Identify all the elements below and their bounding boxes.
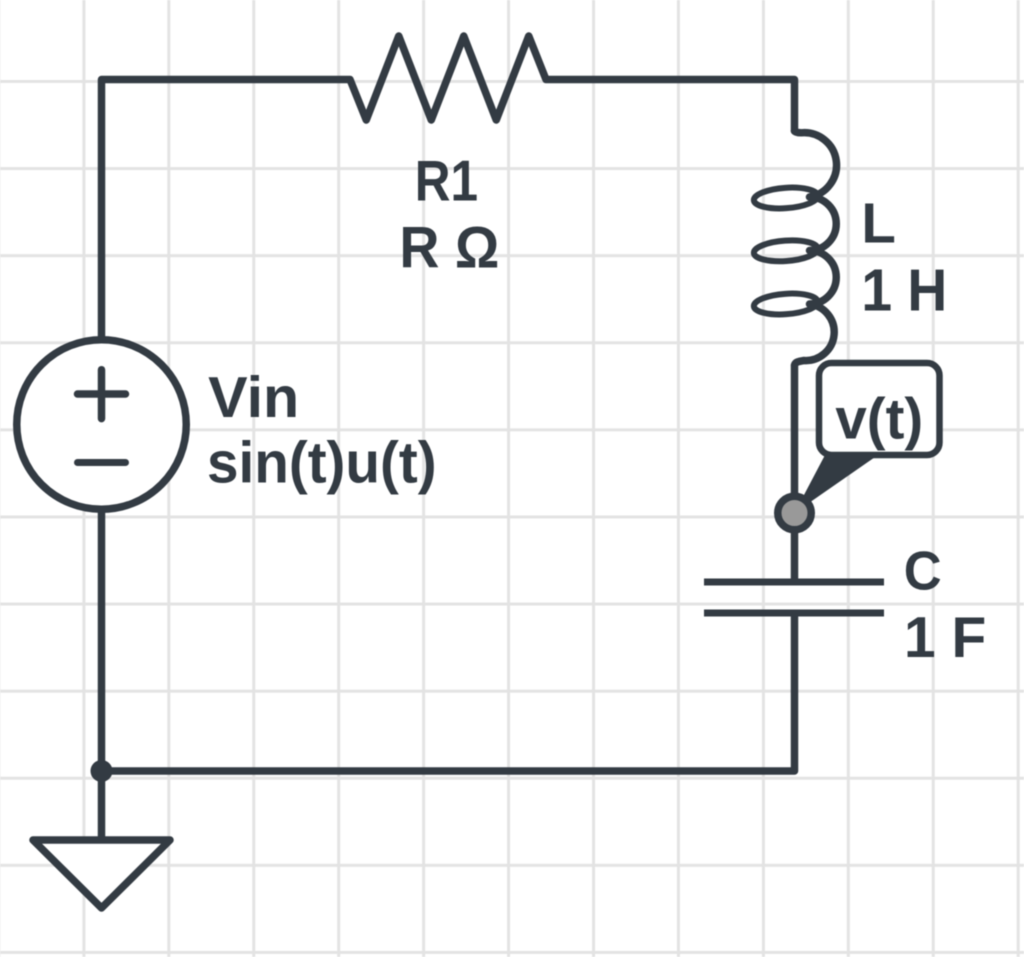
svg-text:R1: R1 [415, 150, 478, 214]
svg-text:v(t): v(t) [835, 388, 923, 452]
svg-text:1 F: 1 F [904, 606, 986, 670]
svg-text:R Ω: R Ω [399, 215, 499, 280]
svg-text:C: C [904, 539, 942, 601]
svg-text:sin(t)u(t): sin(t)u(t) [207, 431, 437, 496]
svg-text:Vin: Vin [208, 366, 299, 430]
svg-text:L: L [861, 193, 896, 256]
svg-text:1 H: 1 H [861, 258, 947, 324]
